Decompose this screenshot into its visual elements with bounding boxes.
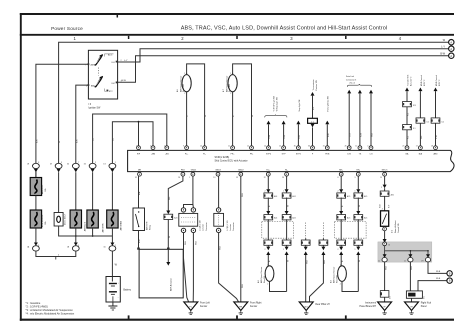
svg-text:*4 : w/o Electric Modulated Ai: *4 : w/o Electric Modulated Air Suspensi… xyxy=(26,311,75,315)
svg-text:L-Y: L-Y xyxy=(441,45,445,48)
junction connector (4WD 1) xyxy=(416,118,429,124)
wire MR pin to ABS motor relay xyxy=(138,176,141,208)
svg-text:FL-: FL- xyxy=(203,153,206,155)
wire stop light SW 3 xyxy=(296,99,301,146)
svg-text:STP: STP xyxy=(282,153,287,155)
J/B input pin xyxy=(383,242,390,247)
connector A25 row3 xyxy=(337,240,346,245)
svg-text:A: A xyxy=(450,54,452,58)
wire W-B to right kick area xyxy=(410,262,413,291)
wire stop light SW 1 xyxy=(267,121,272,146)
page connector circle B (W-B 2) xyxy=(447,278,452,283)
wire col35 between fuses xyxy=(35,196,37,211)
wire to ECU pin BA xyxy=(407,130,410,146)
svg-text:Power Source: Power Source xyxy=(51,26,83,31)
ignition switch terminal ACC xyxy=(105,54,114,57)
svg-text:2: 2 xyxy=(381,187,382,189)
svg-text:Data Link: Data Link xyxy=(346,75,354,78)
4WD control ECU wire 2 xyxy=(434,75,442,118)
svg-text:1J: 1J xyxy=(378,260,380,262)
svg-text:G-W: G-W xyxy=(284,135,286,139)
svg-text:Control SW: Control SW xyxy=(397,223,400,233)
wire col78 segment xyxy=(75,172,77,210)
svg-text:Fender: Fender xyxy=(250,305,258,308)
ECU top pin STP xyxy=(264,146,272,156)
svg-text:GND1: GND1 xyxy=(191,169,197,171)
fuse ABS MTR (col 96) xyxy=(87,210,105,232)
wire FR+ sensor loop xyxy=(233,64,255,146)
svg-text:Junction: Junction xyxy=(202,224,205,231)
svg-text:1: 1 xyxy=(136,146,137,148)
svg-text:+BM: +BM xyxy=(151,153,156,155)
ECU bottom pin MR xyxy=(138,169,142,176)
header divider line xyxy=(20,34,454,36)
svg-text:ABS MTR: ABS MTR xyxy=(102,223,105,232)
svg-text:STP2: STP2 xyxy=(296,153,302,155)
fuse ECU-IG (col 35 lower) xyxy=(30,210,47,228)
svg-text:A20: A20 xyxy=(174,217,177,220)
svg-text:26: 26 xyxy=(345,146,347,148)
wire battery feed xyxy=(112,251,117,276)
connector A25 row2 xyxy=(354,215,367,220)
svg-text:MTCX: MTCX xyxy=(382,169,388,171)
ABS speed sensor front RH xyxy=(222,73,237,95)
ECU top pin FR+ xyxy=(228,146,235,156)
ignition switch terminal IG2 xyxy=(111,81,121,85)
svg-text:ABS NO.1: ABS NO.1 xyxy=(41,184,44,194)
ECU top pin FL- xyxy=(200,146,206,156)
svg-text:17: 17 xyxy=(416,146,418,148)
ground triangle right kick panel xyxy=(405,298,432,314)
page border: bottom edge xyxy=(20,319,454,321)
svg-text:(No. 2): (No. 2) xyxy=(350,83,356,85)
junction connector (transfer 1) xyxy=(403,102,416,108)
svg-text:1: 1 xyxy=(267,265,268,267)
connector (col 96) xyxy=(89,163,96,172)
svg-text:7: 7 xyxy=(85,65,86,67)
svg-text:FR-: FR- xyxy=(250,153,254,155)
svg-text:1: 1 xyxy=(230,73,231,75)
ECU top pin FR- xyxy=(247,146,254,156)
wire B lower xyxy=(340,219,342,240)
svg-text:13: 13 xyxy=(213,177,215,179)
svg-text:W-B: W-B xyxy=(242,192,244,197)
wire stop light SW 2 xyxy=(282,121,287,146)
svg-text:Parking Brake SW: Parking Brake SW xyxy=(327,96,330,112)
connector oval tiny codes row2 xyxy=(27,245,116,248)
wire col35 segment xyxy=(35,172,37,177)
svg-text:1: 1 xyxy=(164,146,165,148)
ground triangle instrument panel brace RH xyxy=(360,297,392,314)
shield drain wire RL xyxy=(301,223,310,302)
svg-text:32: 32 xyxy=(135,177,137,179)
svg-text:1: 1 xyxy=(340,265,341,267)
ECU top pin AED xyxy=(431,146,438,156)
connector 1D (col 113.8 bottom) xyxy=(109,243,116,252)
wire DLC3 CG xyxy=(369,90,374,146)
wire J/B pin3 to page connector B xyxy=(428,262,447,274)
svg-text:Instrument: Instrument xyxy=(365,301,376,304)
svg-text:2: 2 xyxy=(265,191,266,193)
svg-text:Stop Light SW: Stop Light SW xyxy=(298,99,301,111)
connector (col 113.8) xyxy=(109,163,116,172)
svg-text:B: B xyxy=(449,279,451,283)
svg-text:W-B: W-B xyxy=(436,271,441,273)
connector A26 (MTCX) xyxy=(380,191,394,197)
svg-text:GND3: GND3 xyxy=(215,169,221,171)
fuse AM2 (col 78) xyxy=(70,210,86,231)
svg-text:RL-: RL- xyxy=(285,169,289,171)
ignition switch terminal ST2 xyxy=(105,89,114,94)
svg-text:STP0: STP0 xyxy=(266,153,272,155)
svg-text:ECU *2: ECU *2 xyxy=(439,80,441,86)
svg-text:FR: FR xyxy=(239,306,242,308)
svg-text:W-B: W-B xyxy=(324,259,326,264)
ECU top pin FL+ xyxy=(183,146,189,156)
ECU bottom pin GND2 xyxy=(238,169,244,176)
svg-text:W: W xyxy=(287,260,289,262)
ignition switch SW box xyxy=(88,50,117,99)
wire to ECU pin B/A xyxy=(420,123,423,146)
svg-text:Rear RH: Rear RH xyxy=(335,275,338,283)
connector A25 row3 xyxy=(354,240,363,245)
wire RL- chain xyxy=(285,176,289,193)
svg-text:W: W xyxy=(252,115,254,117)
svg-text:A 6: A 6 xyxy=(176,89,179,92)
svg-text:*3 : w/ Electric Modulated Air: *3 : w/ Electric Modulated Air Suspensio… xyxy=(26,308,74,312)
ECU bottom pin tiny numbers xyxy=(135,177,382,179)
svg-text:Actuator *2: Actuator *2 xyxy=(410,77,413,86)
ECU top pin +BM xyxy=(150,146,155,156)
svg-text:A25: A25 xyxy=(364,217,367,220)
ECU bottom pin GND1 xyxy=(191,169,197,176)
wire W mid xyxy=(285,198,290,215)
wire GND3 column xyxy=(218,176,220,208)
svg-text:10: 10 xyxy=(200,146,202,148)
svg-text:A24: A24 xyxy=(274,217,277,220)
svg-text:6: 6 xyxy=(38,245,39,247)
svg-text:2: 2 xyxy=(340,284,341,286)
ignition switch terminal IG1 xyxy=(111,60,121,64)
svg-text:32: 32 xyxy=(236,177,238,179)
page border: left edge xyxy=(20,13,22,321)
svg-text:IK3: IK3 xyxy=(413,105,416,107)
wire B-W bus (IG2 to page connector A) xyxy=(118,52,449,82)
wire FSO to ABS actuator xyxy=(166,176,183,214)
wire between connectors xyxy=(407,107,410,125)
wire joint arrows xyxy=(356,245,361,262)
svg-text:1: 1 xyxy=(189,177,190,179)
svg-text:Ignition SW: Ignition SW xyxy=(89,107,102,110)
svg-text:A: A xyxy=(450,47,452,51)
svg-text:A25: A25 xyxy=(364,195,367,198)
ECU bottom pin FSO xyxy=(181,169,186,176)
ECU bottom pin RL+ xyxy=(266,169,271,176)
wire L-Y bus (IG1 to page connector A) xyxy=(118,45,449,62)
svg-text:ABS MAIN: ABS MAIN xyxy=(119,220,122,230)
svg-text:A24: A24 xyxy=(292,217,295,220)
svg-text:15: 15 xyxy=(380,177,382,179)
ignition switch upper contact arm (AM1-IG1) xyxy=(95,54,104,66)
ABS speed sensor front LH xyxy=(176,73,191,95)
junction connector J101 xyxy=(214,208,235,233)
svg-text:BO: BO xyxy=(305,306,308,308)
svg-text:W-B: W-B xyxy=(242,283,244,288)
svg-text:ABS NO.2: ABS NO.2 xyxy=(84,221,87,231)
wire col96 segment xyxy=(92,172,94,210)
wire DLC3 SIL xyxy=(347,90,352,146)
svg-text:1G: 1G xyxy=(113,138,115,141)
svg-text:IL2: IL2 xyxy=(426,121,429,123)
ignition switch terminal AM2 xyxy=(86,84,96,87)
svg-text:Downhill Assist: Downhill Assist xyxy=(394,220,397,233)
wire RR+ chain xyxy=(339,176,343,193)
svg-text:W: W xyxy=(287,205,289,207)
svg-text:Front Left: Front Left xyxy=(200,301,210,304)
wire column x96 to ECU +BM bus xyxy=(93,114,167,164)
wire DLC3 TS xyxy=(358,90,363,146)
svg-text:B: B xyxy=(449,272,451,276)
svg-text:18: 18 xyxy=(431,146,433,148)
wire branch to ECU pin R/F xyxy=(138,122,140,146)
4WD control ECU wire 1 xyxy=(418,75,426,118)
wire joint arrows xyxy=(266,245,271,262)
svg-text:ABS Speed Sensor: ABS Speed Sensor xyxy=(225,75,228,92)
wires J100 to front left fender ground xyxy=(184,233,198,303)
svg-text:9: 9 xyxy=(355,177,356,179)
connector A24 row2 xyxy=(282,215,295,220)
connector A20 (FSO wire) xyxy=(164,214,178,220)
svg-text:11: 11 xyxy=(228,146,230,148)
svg-text:2: 2 xyxy=(115,245,116,247)
page connector circle B (W-B 1) xyxy=(447,271,452,276)
svg-text:8: 8 xyxy=(38,162,39,164)
ABS motor relay xyxy=(133,208,152,231)
svg-text:25: 25 xyxy=(402,146,404,148)
junction connector J100 (2x2) xyxy=(179,208,208,233)
page connector circle A (W) xyxy=(449,40,454,45)
ECU top pin R/F xyxy=(136,146,141,156)
svg-text:W-B: W-B xyxy=(306,259,308,264)
connector A24 row3 xyxy=(264,240,273,245)
svg-text:W-B: W-B xyxy=(185,240,187,245)
downhill assist control SW xyxy=(381,209,401,234)
svg-text:30: 30 xyxy=(294,146,296,148)
svg-text:2: 2 xyxy=(95,162,96,164)
svg-text:12: 12 xyxy=(355,146,357,148)
svg-text:W: W xyxy=(205,115,207,117)
connector A24 row1 xyxy=(264,193,277,198)
ECU top pin D/G xyxy=(345,146,352,156)
ground triangle front right fender xyxy=(234,301,262,314)
svg-text:IK1: IK1 xyxy=(424,296,426,299)
connector (col 78) xyxy=(72,163,79,172)
svg-text:ECU *2: ECU *2 xyxy=(424,80,426,86)
shielded cable (RR pair) xyxy=(335,222,367,239)
connector 1I (col 35) xyxy=(33,163,40,172)
svg-text:GND2: GND2 xyxy=(238,169,244,171)
svg-text:Rear Pillar LH: Rear Pillar LH xyxy=(315,303,330,306)
svg-text:A24: A24 xyxy=(292,195,295,198)
svg-text:*3 STOP Light SW: *3 STOP Light SW xyxy=(273,96,276,112)
svg-text:J-C(B) J 101: J-C(B) J 101 xyxy=(227,220,229,231)
page border: top edge xyxy=(20,13,454,15)
wire GND2 to front right fender ground xyxy=(241,176,244,302)
ignition switch designator label xyxy=(89,104,102,109)
fuse MAIN (col 113.8) xyxy=(107,210,123,230)
svg-text:Battery: Battery xyxy=(123,289,131,292)
page connector circle A (L-Y) xyxy=(449,46,454,51)
fuse ABS No.1 (col 35 upper) xyxy=(30,178,47,196)
junction connector IK1 (right kick) xyxy=(406,291,425,299)
svg-text:2 1: 2 1 xyxy=(311,121,314,123)
ECU top pin P xyxy=(308,146,314,156)
connector 1B (col 35 bottom) xyxy=(33,243,40,252)
junction connector (transfer 2) xyxy=(403,125,416,131)
svg-text:G-W: G-W xyxy=(269,135,271,139)
svg-text:L-Y: L-Y xyxy=(124,60,128,62)
svg-text:7: 7 xyxy=(78,162,79,164)
svg-text:24: 24 xyxy=(178,177,180,179)
ignition switch mechanical link (dashed) xyxy=(97,68,99,76)
bus at y236 joining fuse columns xyxy=(36,226,113,243)
ECU bottom pin RR- xyxy=(356,169,360,176)
page connector circle A (B-W) xyxy=(449,53,454,58)
svg-text:A 8: A 8 xyxy=(257,280,260,283)
connector oval tiny codes row1 xyxy=(27,162,116,165)
wire downhill SW to J/B xyxy=(383,227,387,243)
svg-text:Connector: Connector xyxy=(205,222,208,231)
wire to page connector B lower xyxy=(418,278,447,291)
svg-text:A: A xyxy=(450,40,452,44)
svg-text:1: 1 xyxy=(283,191,284,193)
svg-text:14: 14 xyxy=(264,146,266,148)
wire RR sensor bottom loop xyxy=(342,281,358,292)
svg-text:Fender: Fender xyxy=(200,305,208,308)
shield drain wire RR xyxy=(310,223,328,302)
top ruler numbers xyxy=(74,36,402,41)
ECU top pin MTBE xyxy=(367,146,373,156)
svg-text:Right Kick: Right Kick xyxy=(421,301,432,304)
top ruler ticks xyxy=(129,36,346,39)
wire GND3 to front right fender ground xyxy=(219,233,239,303)
data link connector 3 brace xyxy=(346,75,372,87)
svg-text:W-B: W-B xyxy=(372,132,374,137)
wire MTCX chain xyxy=(383,176,387,191)
short pin connector S2 xyxy=(308,118,318,127)
svg-text:ABS Actuator: ABS Actuator xyxy=(170,278,173,291)
svg-text:2: 2 xyxy=(230,93,231,95)
wire RL+ chain xyxy=(266,176,270,193)
wire W lower xyxy=(286,219,288,240)
svg-text:Panel: Panel xyxy=(421,306,427,308)
svg-text:3: 3 xyxy=(61,162,62,164)
wire W lower xyxy=(357,219,359,240)
connector A25 row1 xyxy=(354,193,367,198)
svg-text:Transfer Shift: Transfer Shift xyxy=(406,74,409,86)
wire RL+ to sensor xyxy=(267,255,269,266)
svg-text:*2 : 1GR-FE (4WD): *2 : 1GR-FE (4WD) xyxy=(26,304,48,308)
svg-text:1: 1 xyxy=(115,162,116,164)
svg-text:Skid Control ECU with Actuator: Skid Control ECU with Actuator xyxy=(215,160,248,163)
svg-text:W-B: W-B xyxy=(411,265,413,270)
svg-text:ABS Speed Sensor: ABS Speed Sensor xyxy=(333,266,336,283)
ECU top pin PKB xyxy=(323,146,330,156)
svg-text:ECU-IG NO.2: ECU-IG NO.2 xyxy=(42,214,44,227)
svg-text:1: 1 xyxy=(283,249,284,251)
svg-text:Position SW: Position SW xyxy=(315,80,318,91)
svg-text:Front RH: Front RH xyxy=(228,84,231,92)
ground triangle front left fender xyxy=(184,301,210,314)
transmission position SW wire xyxy=(311,79,319,118)
svg-text:W-B: W-B xyxy=(385,265,387,270)
svg-text:IL2: IL2 xyxy=(442,121,445,123)
svg-text:ABS MTR: ABS MTR xyxy=(146,221,149,230)
shielded cable (RL pair) xyxy=(262,222,294,239)
connector 1C (col 78 bottom) xyxy=(72,243,79,252)
ECU bottom pin RR+ xyxy=(339,169,344,176)
svg-text:W: W xyxy=(59,141,61,143)
svg-text:W-B: W-B xyxy=(220,245,222,250)
svg-text:W-B: W-B xyxy=(195,240,197,245)
svg-text:B-R: B-R xyxy=(139,239,141,243)
ABS speed sensor rear RH xyxy=(329,265,346,286)
svg-text:RR-: RR- xyxy=(357,169,361,171)
svg-text:1: 1 xyxy=(355,249,356,251)
wire FL+ sensor loop xyxy=(187,64,208,146)
junction dot xyxy=(138,121,140,123)
svg-text:1G: 1G xyxy=(93,138,95,141)
wire B lower xyxy=(267,219,269,240)
wire connector to actuator box xyxy=(167,220,171,250)
svg-text:9: 9 xyxy=(183,146,184,148)
svg-text:2: 2 xyxy=(337,249,338,251)
stop light SW branch (brace pair) xyxy=(265,96,287,118)
wire J/B pin1 to ground xyxy=(385,262,388,291)
svg-text:31: 31 xyxy=(323,146,325,148)
wire GND1 to junction block xyxy=(184,176,194,208)
svg-text:15: 15 xyxy=(279,146,281,148)
wire AM2 feed xyxy=(76,85,89,164)
wire joint arrows xyxy=(339,245,344,262)
junction connector (4WD 2) xyxy=(431,118,444,124)
svg-text:D/G: D/G xyxy=(347,153,351,155)
svg-text:B-R: B-R xyxy=(37,139,39,143)
wire RL sensor bottom loop xyxy=(270,281,287,292)
svg-text:B-W: B-W xyxy=(440,52,445,55)
svg-text:A26: A26 xyxy=(391,194,394,197)
svg-text:CG: CG xyxy=(370,153,373,155)
wire relay to actuator xyxy=(137,231,141,250)
svg-text:22: 22 xyxy=(264,177,266,179)
svg-text:A 9: A 9 xyxy=(329,280,332,283)
wire to downhill SW xyxy=(380,196,391,211)
svg-text:Transmission: Transmission xyxy=(312,79,315,90)
svg-text:A25: A25 xyxy=(347,217,350,220)
svg-text:2: 2 xyxy=(265,249,266,251)
svg-text:L-W: L-W xyxy=(436,135,438,139)
svg-text:4: 4 xyxy=(382,209,383,211)
svg-text:2: 2 xyxy=(150,146,151,148)
battery xyxy=(106,277,132,303)
wire AM1 feed xyxy=(36,64,89,179)
svg-text:1: 1 xyxy=(184,73,185,75)
svg-text:SKID(L 924B): SKID(L 924B) xyxy=(215,156,230,159)
connector IE2 xyxy=(380,291,391,299)
ECU bottom pin GND3 xyxy=(215,169,221,176)
svg-text:A 7: A 7 xyxy=(222,89,225,92)
ABS actuator box xyxy=(139,249,183,298)
